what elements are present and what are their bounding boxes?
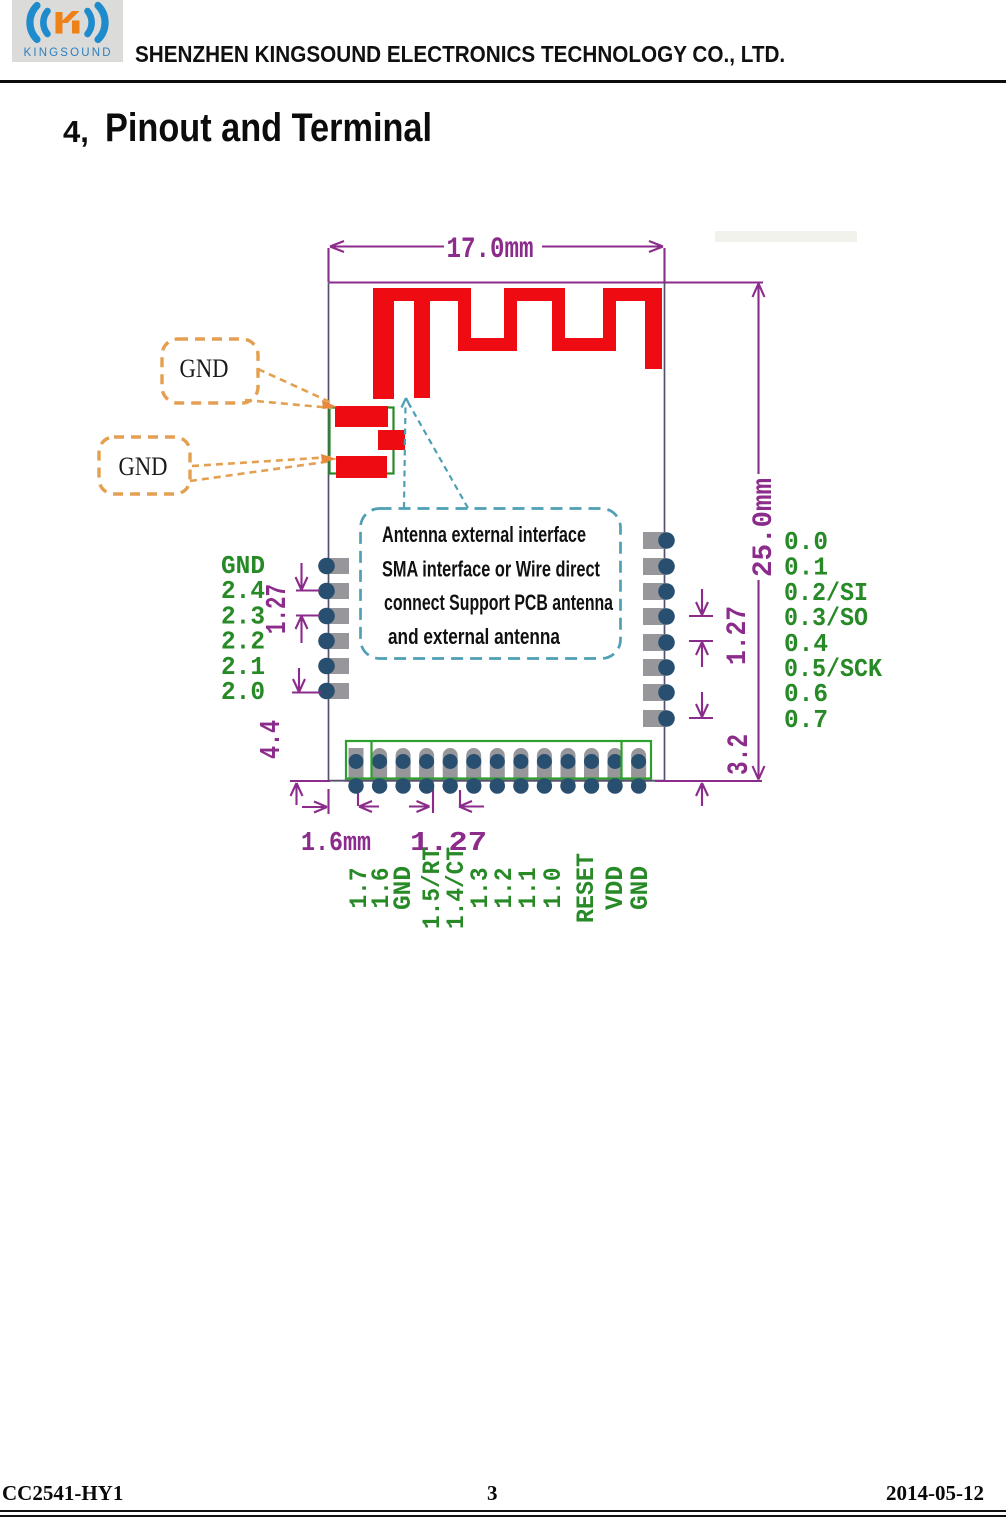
logo inner right arc <box>88 11 92 34</box>
svg-text:1.0: 1.0 <box>539 868 568 909</box>
svg-text:GND: GND <box>626 866 655 910</box>
dimension 4.4 arrow top <box>292 668 321 693</box>
callout GND 1 arrowhead <box>322 400 337 409</box>
bottom pad 1.1 <box>513 748 528 788</box>
bottom pad RESET <box>584 748 599 788</box>
bottom pad 1.4/CT <box>443 748 458 788</box>
dimension 25.0mm line <box>753 284 765 780</box>
module bottom edge over pads <box>344 780 652 782</box>
svg-text:3.2: 3.2 <box>723 734 757 775</box>
dimension 4.4 arrow bottom <box>291 783 303 805</box>
svg-text:1.6mm: 1.6mm <box>301 829 371 859</box>
pad right 0.6 <box>643 684 675 701</box>
module right edge <box>664 283 666 782</box>
callout GND 1 box <box>162 339 258 403</box>
antenna note bubble tail arrowhead <box>402 398 411 408</box>
pad left 2.4 <box>318 583 349 600</box>
dimension 1.6mm arrow <box>302 789 329 814</box>
bottom pad 1.3 <box>466 748 481 788</box>
right pin labels <box>784 527 882 735</box>
pad left 2.3 <box>318 608 349 625</box>
antenna trace <box>373 288 662 399</box>
bottom pad nc <box>561 748 576 788</box>
module left edge <box>328 283 330 782</box>
left pin labels <box>221 551 265 707</box>
dimension 1.27 right text <box>723 606 754 665</box>
pad right 0.5 <box>643 659 675 676</box>
pad left GND <box>318 558 349 575</box>
bottom pad 1.2 <box>490 748 505 788</box>
svg-text:GND: GND <box>180 354 229 383</box>
svg-text:SMA interface or Wire direct: SMA interface or Wire direct <box>382 557 600 582</box>
logo inner left arc <box>43 11 47 34</box>
bottom pad VDD <box>608 748 623 788</box>
svg-text:GND: GND <box>389 866 418 910</box>
bottom pad 1.6 <box>372 748 387 788</box>
module bottom edge <box>329 780 665 782</box>
footer double rule <box>0 1510 1006 1512</box>
pad right 0.3 <box>643 608 675 625</box>
svg-text:1.27: 1.27 <box>261 584 294 634</box>
pad left 2.0 <box>318 683 349 700</box>
bottom pads green box <box>346 741 651 779</box>
callout GND 1 leader <box>245 369 332 408</box>
green outline around antenna GND pads <box>330 408 394 474</box>
bottom pad 1.7 <box>349 748 364 788</box>
dimension 1.27 bottom text <box>410 829 487 859</box>
antenna GND pad C <box>336 456 387 478</box>
callout GND 2 arrowhead <box>321 454 337 463</box>
pad right 0.4 <box>643 634 675 651</box>
antenna note bubble <box>361 509 621 659</box>
svg-text:and external antenna: and external antenna <box>388 624 561 649</box>
bottom pad lower dots <box>348 778 646 793</box>
antenna note text <box>382 522 614 649</box>
module top edge <box>329 281 764 283</box>
company name <box>135 41 785 68</box>
svg-text:connect Support PCB antenna: connect Support PCB antenna <box>384 590 614 615</box>
dimension 1.27 right arrows <box>689 589 713 667</box>
bottom pad GND <box>396 748 411 788</box>
scan artifact streak <box>715 231 857 242</box>
dimension 1.27 left text <box>261 584 294 634</box>
footer text row <box>0 1480 1006 1482</box>
pad right 0.2 <box>643 583 675 600</box>
svg-text:0.7: 0.7 <box>784 705 828 735</box>
header rule <box>0 80 1006 83</box>
logo orange K angle <box>60 11 80 23</box>
logo orange K bar <box>56 12 63 34</box>
bottom pin labels <box>345 847 655 929</box>
logo outer right arc <box>98 6 105 40</box>
antenna GND pad A <box>335 406 388 427</box>
pad right 0.7 <box>643 710 675 727</box>
svg-text:17.0mm: 17.0mm <box>447 233 534 267</box>
dimension 4.4 text <box>255 720 288 759</box>
svg-text:25.0mm: 25.0mm <box>749 478 780 577</box>
bottom pad 1.5/RT <box>419 748 434 788</box>
section title <box>63 114 89 150</box>
callout GND 2 leader <box>190 457 332 481</box>
pad left 2.2 <box>318 633 349 650</box>
dimension 3.2 arrow bottom <box>696 783 708 806</box>
dimension 1.6mm text <box>301 829 371 859</box>
dimension 1.27 left arrows <box>296 563 321 643</box>
antenna note bubble tail <box>404 404 468 508</box>
svg-text:1.27: 1.27 <box>723 606 754 665</box>
bottom dimension extension lines <box>290 780 762 782</box>
dimension 17.0mm top <box>329 241 665 282</box>
pad left 2.1 <box>318 658 349 675</box>
svg-text:RESET: RESET <box>572 853 601 923</box>
bottom pad GND <box>631 748 646 788</box>
dimension text 17.0mm <box>447 233 534 267</box>
pad right 0.0 <box>643 532 675 549</box>
antenna GND pad B <box>378 430 405 450</box>
dimension 25.0mm text <box>749 478 780 577</box>
header logo box <box>12 0 123 62</box>
svg-text:Antenna external interface: Antenna external interface <box>382 522 586 547</box>
dimension 3.2 arrow top <box>689 692 713 718</box>
logo outer left arc <box>30 6 37 40</box>
svg-text:GND: GND <box>119 452 168 481</box>
bottom pad 1.0 <box>537 748 552 788</box>
pad right 0.1 <box>643 558 675 575</box>
svg-text:4.4: 4.4 <box>255 720 288 759</box>
dimension 1.27 bottom arrows <box>358 788 484 813</box>
dimension 3.2 text <box>723 734 757 775</box>
svg-text:2.0: 2.0 <box>221 677 265 707</box>
callout GND 2 box <box>99 437 190 494</box>
